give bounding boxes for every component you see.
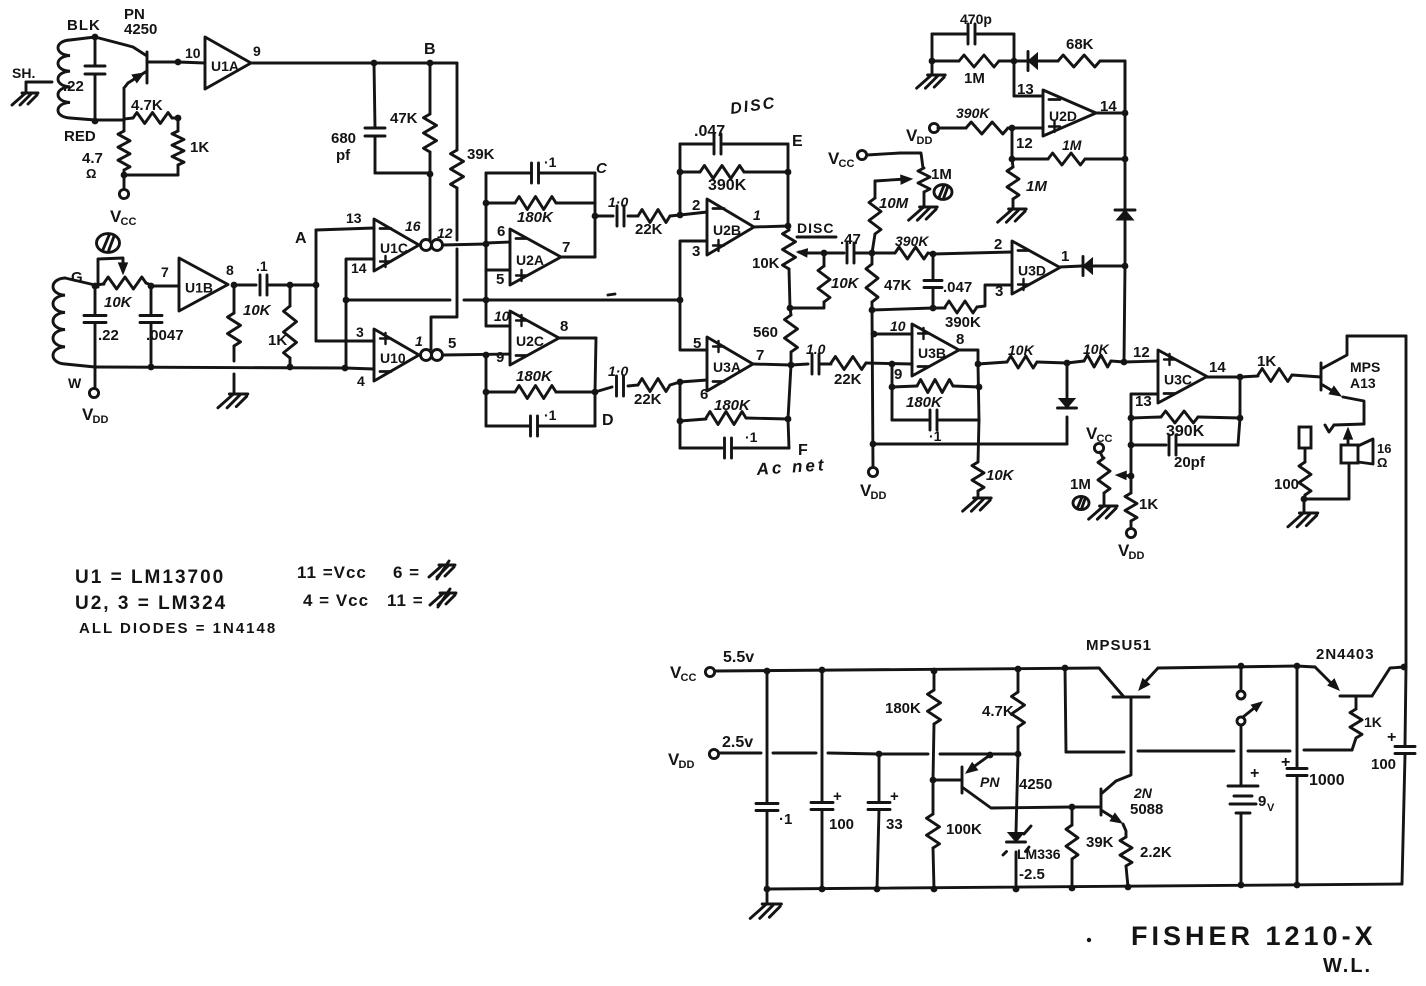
label .22: [63, 78, 84, 95]
label pin 14 U2D: [1100, 98, 1117, 115]
capacitor .1 (U2C fb): [486, 392, 595, 436]
svg-text:10K: 10K: [243, 302, 272, 319]
node 1M left: [929, 58, 936, 65]
node U3C pin12 junction: [1121, 359, 1128, 366]
svg-text:.22: .22: [98, 327, 119, 344]
label .1 (U3B fb): [929, 428, 942, 444]
svg-text:B: B: [424, 41, 436, 58]
svg-text:8: 8: [956, 331, 964, 348]
stray mark: [1087, 938, 1091, 942]
svg-text:20pf: 20pf: [1174, 454, 1206, 471]
svg-text:2.5v: 2.5v: [722, 734, 753, 751]
node wiper tap: [1128, 473, 1135, 480]
resistor 4.7K (supply): [1012, 669, 1025, 754]
svg-text:14: 14: [1209, 359, 1226, 376]
label .1 (U1B): [256, 258, 268, 274]
transistor Q6 2N4403: [1315, 667, 1404, 696]
label 390K (U3D in): [895, 233, 929, 249]
resistor 39K (node B): [451, 63, 464, 240]
wire 1K bottom to Vcc node: [121, 172, 178, 189]
svg-text:12: 12: [437, 225, 453, 241]
svg-text:9: 9: [894, 366, 902, 383]
svg-text:5: 5: [496, 271, 504, 288]
terminal Vcc (input stage): [110, 189, 136, 228]
legend 4=Vcc: [303, 591, 369, 610]
resistor 390K (Vdd-U2D): [938, 122, 1012, 134]
wire U3A output: [753, 364, 791, 419]
node rail switch: [1238, 663, 1245, 670]
label .47: [840, 231, 861, 248]
svg-text:DD: DD: [679, 759, 695, 771]
svg-text:2: 2: [994, 236, 1002, 253]
label pin 6 U2A: [497, 223, 505, 240]
op-amp U1B: [179, 258, 228, 311]
svg-text:1: 1: [1061, 248, 1069, 265]
svg-text:1·0: 1·0: [608, 363, 628, 379]
node U2B pin2 junction: [677, 212, 684, 219]
label pin 2 U2B: [692, 197, 700, 214]
label PN (supply): [980, 774, 1000, 790]
op-amp U3A: [707, 337, 753, 391]
label 47K: [390, 110, 418, 127]
transistor Q5 2N5088: [1072, 781, 1122, 823]
svg-text:1M: 1M: [1062, 137, 1082, 153]
diode D2 (U3D output): [1060, 257, 1125, 276]
label 22K (U2C-U3A): [634, 391, 662, 408]
op-amp U3B: [912, 324, 959, 376]
svg-text:ALL DIODES = 1N4148: ALL DIODES = 1N4148: [79, 620, 277, 637]
label 5.5v: [723, 649, 754, 666]
node rail 100: [819, 667, 826, 674]
terminal Vdd (input stage): [82, 367, 108, 426]
wire Vcc to 1M pot: [867, 153, 923, 168]
label 1M (U2D fb): [964, 70, 985, 87]
capacitor .047 (U2B fb): [680, 134, 788, 154]
label pin 9 U2C: [496, 349, 504, 366]
wire 39K down to U10 output: [431, 249, 457, 349]
op-amp U3C: [1158, 350, 1207, 403]
label pin 3 U2B: [692, 243, 700, 260]
transistor Q4 PN4250 (supply PNP): [933, 755, 1072, 808]
wire BLK to Q1 collector: [95, 37, 147, 56]
svg-text:MPSU51: MPSU51: [1086, 637, 1152, 654]
wire U10 output to U2C pin9: [443, 354, 511, 355]
zener LM336-2.5: [1003, 754, 1031, 889]
svg-text:MPS: MPS: [1350, 359, 1380, 375]
terminal Vdd (U3C): [1118, 528, 1144, 562]
svg-text:4: 4: [357, 373, 365, 389]
speaker plug arrow: [1344, 428, 1353, 444]
resistor 1M (U2D fb): [932, 55, 1014, 67]
label 1.0 (U3A-U3B): [806, 341, 826, 357]
legend 6=gnd: [393, 561, 455, 582]
svg-text:1: 1: [753, 207, 761, 223]
label 390K (U2B): [708, 177, 747, 194]
terminal Vcc (1M trim): [1086, 424, 1112, 453]
label 100 (supply): [829, 816, 854, 833]
svg-text:470p: 470p: [960, 11, 992, 27]
node gnd 100K: [931, 886, 938, 893]
svg-text:5088: 5088: [1130, 801, 1163, 818]
svg-text:+: +: [1281, 754, 1290, 771]
svg-text:U3C: U3C: [1164, 372, 1192, 388]
node diode tap: [1064, 360, 1071, 367]
label pin 8 U1B: [226, 262, 234, 278]
svg-text:13: 13: [1017, 81, 1034, 98]
label pin 9 U1A: [253, 43, 261, 59]
label 10K: [104, 294, 133, 311]
trimmer symbol (10K pot): [97, 234, 128, 287]
wire 20pf node down: [1130, 445, 1133, 493]
label pin 10 U3B: [890, 318, 906, 334]
svg-text:4.7K: 4.7K: [131, 97, 163, 114]
svg-text:U2A: U2A: [516, 252, 544, 268]
capacitor .22 (cartridge): [85, 37, 105, 120]
speaker 16 ohm: [1341, 439, 1373, 464]
label C: [596, 160, 608, 177]
svg-text:22K: 22K: [635, 221, 663, 238]
capacitor 1.0 (U2C-U3A): [595, 376, 638, 396]
svg-text:DD: DD: [1129, 550, 1145, 562]
label 180K (supply): [885, 700, 921, 717]
node 180K left (U3B): [889, 384, 896, 391]
node rail 180K: [931, 668, 938, 675]
node 47K/680pf junction: [427, 171, 434, 178]
capacitor .1 (U1B coupling): [234, 275, 290, 295]
label PN 4250: [124, 6, 157, 38]
svg-text:4.7K: 4.7K: [982, 703, 1014, 720]
node B: [424, 41, 436, 66]
node 180K left (U2A): [483, 200, 490, 207]
label 10K b: [1083, 341, 1110, 357]
svg-text:10: 10: [890, 318, 906, 334]
node gnd 39K: [1069, 885, 1076, 892]
resistor 180K (supply): [928, 671, 941, 780]
wire center vertical (U2A+/U2C+): [486, 173, 510, 326]
label BLK: [67, 17, 101, 34]
label 2N4403: [1316, 646, 1375, 663]
svg-text:CC: CC: [839, 158, 855, 170]
label pin 1 U3D: [1061, 248, 1069, 265]
node W bus 1K: [287, 364, 294, 371]
svg-text:16: 16: [405, 218, 421, 234]
label 2N 5088: [1130, 785, 1163, 818]
svg-text:560: 560: [753, 324, 778, 341]
wire node B down to U1C pin16: [429, 174, 432, 240]
label 33 (supply): [886, 816, 903, 833]
wiper arrow (1M pot): [875, 175, 912, 184]
resistor 47K (node B): [424, 63, 437, 174]
resistor 1K (Q6): [1350, 697, 1362, 750]
resistor 22K (U2C-U3A): [638, 379, 680, 392]
node Vdd 33: [876, 751, 883, 758]
wire U2A fb right vertical: [594, 173, 597, 257]
svg-text:10: 10: [494, 308, 510, 324]
svg-text:G: G: [71, 269, 83, 286]
svg-text:1: 1: [415, 333, 423, 349]
svg-text:.0047: .0047: [146, 327, 184, 344]
wire U2D pin12: [1012, 127, 1043, 130]
svg-text:2: 2: [692, 197, 700, 214]
label W: [68, 375, 82, 391]
resistor 22K (U3A-U3B): [831, 357, 912, 370]
wire pot to U1B: [151, 285, 179, 288]
node U3B pin9 junction: [889, 361, 896, 368]
resistor 180K (U2A fb): [486, 197, 595, 210]
resistor 22K (U2A-U2B): [638, 210, 680, 223]
svg-text:390K: 390K: [708, 177, 747, 194]
label pin 5 U10: [448, 335, 456, 352]
svg-text:22K: 22K: [834, 371, 862, 388]
capacitor 33 (supply): [868, 754, 899, 889]
label pin 13 U3C: [1135, 393, 1152, 410]
node spine/U3D junction: [1122, 263, 1129, 270]
label F: [798, 442, 808, 459]
node junction 680pf: [371, 60, 378, 67]
node Q1 base/1K junction: [175, 59, 182, 66]
svg-text:13: 13: [1135, 393, 1152, 410]
output circles U10: [421, 350, 443, 361]
node W bus .0047: [148, 364, 155, 371]
svg-text:39K: 39K: [1086, 834, 1114, 851]
resistor 1K (U3C out): [1258, 369, 1321, 382]
node 1.0 tap (U2A out): [592, 213, 599, 220]
svg-text:RED: RED: [64, 128, 96, 145]
node Q4 base: [930, 777, 937, 784]
potentiometer 1M (top): [918, 168, 930, 206]
svg-text:12: 12: [1016, 135, 1033, 152]
node bus1 center: [483, 297, 490, 304]
label E: [792, 133, 803, 150]
svg-text:680: 680: [331, 130, 356, 147]
wire U2C fb left vertical: [485, 355, 488, 426]
label 1M (vert): [1026, 178, 1047, 195]
label pin 14 U3C: [1209, 359, 1226, 376]
node RED junction: [92, 118, 99, 125]
wire U2A output: [561, 256, 595, 259]
svg-text:+: +: [833, 788, 842, 805]
label pin 2 U3D: [994, 236, 1002, 253]
capacitor 20pf: [1131, 377, 1240, 455]
wire U2B fb left vertical: [679, 144, 682, 215]
node 560 top: [787, 305, 794, 312]
label pin 3 U10: [356, 324, 364, 340]
wire right edge vertical: [1405, 336, 1408, 667]
wire U2A pin6: [486, 242, 510, 243]
label .1 (supply): [779, 811, 792, 828]
node 390K/.047 junction: [930, 251, 937, 258]
svg-text:180K: 180K: [714, 397, 751, 414]
potentiometer 1M (AGC): [1098, 452, 1110, 505]
svg-text:U2B: U2B: [713, 222, 741, 238]
wire U2B fb right vertical: [787, 144, 790, 226]
svg-text:PN: PN: [980, 774, 1000, 790]
resistor 47K (DISC): [866, 253, 878, 310]
svg-text:14: 14: [351, 260, 367, 276]
svg-text:-2.5: -2.5: [1019, 866, 1045, 883]
label 100 (output): [1371, 756, 1396, 773]
trimmer symbol (1M AGC): [1073, 496, 1089, 509]
capacitor .1 (U3A fb): [680, 419, 789, 458]
label .0047: [146, 327, 184, 344]
wire U1C output to U2A pin6: [443, 244, 487, 245]
wire U3C output: [1207, 376, 1258, 377]
svg-text:pf: pf: [336, 147, 351, 164]
wiper arrow (DISC pot): [797, 249, 824, 257]
label pin 9 U3B: [894, 366, 902, 383]
svg-text:390K: 390K: [895, 233, 929, 249]
battery 9V: [1228, 765, 1275, 885]
svg-text:U1 = LM13700: U1 = LM13700: [75, 567, 225, 588]
node 1M junction: [1009, 156, 1016, 163]
svg-text:9: 9: [496, 349, 504, 366]
svg-text:6: 6: [700, 386, 708, 403]
label 22K (U3A-U3B): [834, 371, 862, 388]
node bus1 right: [677, 297, 684, 304]
svg-text:·1: ·1: [779, 811, 792, 828]
svg-text:1000: 1000: [1309, 772, 1345, 789]
wire node A to U10 pin3: [316, 340, 374, 343]
wire U3A pin6: [680, 380, 707, 382]
svg-text:A: A: [295, 230, 307, 247]
node 180K right (U3A): [785, 416, 792, 423]
svg-text:6: 6: [497, 223, 505, 240]
svg-text:.047: .047: [943, 279, 972, 296]
label pin 12 U3C: [1133, 344, 1150, 361]
label 39K (supply): [1086, 834, 1114, 851]
node A: [295, 230, 319, 288]
ground (shield): [12, 93, 38, 105]
wire to U3C pin12: [1124, 361, 1158, 362]
svg-text:·1: ·1: [745, 429, 758, 445]
svg-text:1K: 1K: [1139, 496, 1158, 513]
svg-text:DISC: DISC: [797, 220, 834, 236]
label .22 (G): [98, 327, 119, 344]
label LM336: [1017, 846, 1061, 862]
node U2D pin13 junction: [1011, 58, 1018, 65]
wire U3A fb left vertical: [679, 382, 682, 448]
resistor 1M (horiz): [1012, 153, 1125, 165]
wire node A to U1C pin13: [316, 228, 374, 230]
label 1000: [1309, 772, 1345, 789]
resistor 10K (to ground): [972, 420, 984, 497]
capacitor .047 (vert): [924, 254, 942, 308]
capacitor .47: [824, 243, 872, 263]
svg-text:8: 8: [560, 318, 568, 335]
node 390K fb right: [1237, 415, 1244, 422]
svg-text:U3A: U3A: [713, 359, 741, 375]
svg-text:100: 100: [1371, 756, 1396, 773]
wire U2D pin13: [1014, 61, 1043, 96]
node 1K top junction: [287, 282, 294, 289]
svg-text:U2D: U2D: [1049, 108, 1077, 124]
diode D4 (68K): [1014, 52, 1058, 71]
svg-text:SH.: SH.: [12, 65, 35, 81]
label pin 12 U1C: [437, 225, 453, 241]
svg-text:10K: 10K: [1008, 342, 1035, 358]
resistor 390K (U2B fb): [680, 166, 788, 179]
wire right spine upper: [1124, 61, 1127, 209]
wire U3B pin10: [874, 333, 912, 336]
node rail .1: [764, 668, 771, 675]
node .47/10M junction: [869, 250, 876, 257]
node .047 bottom: [930, 305, 937, 312]
resistor 180K (U3B fb): [892, 380, 979, 393]
wire AGC line: [873, 443, 1067, 446]
node U3C output: [1237, 374, 1244, 381]
label 100K: [946, 821, 982, 838]
label pin 12 U2D: [1016, 135, 1033, 152]
wire node A vertical: [315, 230, 318, 341]
label 390K (U3D pin3): [945, 314, 981, 331]
svg-text:5.5v: 5.5v: [723, 649, 754, 666]
label 10K (wiper): [831, 275, 860, 292]
ground (1M vert): [998, 209, 1027, 222]
svg-text:·1: ·1: [544, 154, 557, 170]
label 390K (U3C): [1166, 423, 1205, 440]
label .1 (U3A fb): [745, 429, 758, 445]
wire 47K-.047 bottom: [872, 308, 945, 310]
svg-text:+: +: [1387, 729, 1396, 746]
capacitor 470p: [932, 24, 1014, 44]
label -2.5: [1019, 866, 1045, 883]
wire right spine lower: [1124, 266, 1125, 362]
svg-text:·1: ·1: [929, 428, 942, 444]
svg-text:1M: 1M: [1070, 476, 1091, 493]
legend diodes: [79, 620, 277, 637]
label .1 (U2A fb): [544, 154, 557, 170]
label 1.0 (U2C-U3A): [608, 363, 628, 379]
label D: [602, 412, 614, 429]
label pin 7 U2A: [562, 239, 570, 256]
stray pen mark on bus: [608, 294, 615, 295]
svg-text:33: 33: [886, 816, 903, 833]
ground (main): [750, 889, 781, 918]
label 16 ohm: [1377, 441, 1391, 470]
label pin 10 U2C: [494, 308, 510, 324]
svg-text:U2, 3 = LM324: U2, 3 = LM324: [75, 593, 227, 614]
svg-text:180K: 180K: [885, 700, 921, 717]
transistor Q2 MPS A13: [1321, 336, 1364, 424]
svg-text:1K: 1K: [1257, 353, 1276, 370]
svg-text:Ω: Ω: [86, 166, 96, 181]
svg-text:6 =: 6 =: [393, 563, 420, 582]
ground (1M pot): [909, 207, 938, 220]
ground (1M): [917, 61, 946, 88]
op-amp U2D: [1043, 90, 1096, 136]
resistor 10M: [869, 181, 881, 253]
label pin 8 U3B: [956, 331, 964, 348]
label 100 (jack): [1274, 476, 1299, 493]
wire collector to right rail: [1347, 335, 1406, 338]
resistor 39K (supply): [1066, 807, 1078, 888]
label 1M (pot): [931, 166, 952, 183]
svg-text:A13: A13: [1350, 375, 1376, 391]
wire Vcc to 1K bottom: [1065, 668, 1352, 752]
wire base of Q1 to U1A: [147, 62, 205, 63]
node U3A pin6 junction: [677, 379, 684, 386]
node U1B output: [231, 282, 238, 289]
capacitor 100 (supply): [811, 670, 842, 889]
label pin 1 U10: [415, 333, 423, 349]
label 4.7 ohm: [82, 150, 103, 181]
wire U1C pin14 to bus: [346, 259, 374, 368]
wire speaker jack lead: [1325, 424, 1364, 432]
label 10M: [879, 195, 909, 212]
label 1M (horiz): [1062, 137, 1082, 153]
wire speaker return: [1304, 463, 1349, 499]
terminal Vdd (mid): [860, 467, 886, 502]
